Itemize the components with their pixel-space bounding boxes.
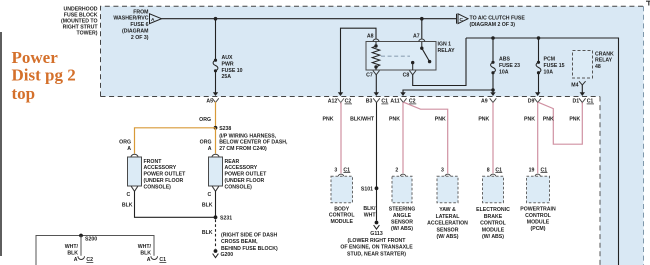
fuse block dashed border top/left: [101, 6, 644, 96]
wire ORG: S238 to rear outlet: [215, 128, 217, 154]
wire PNK: D9 to PCM: [537, 103, 539, 174]
svg-text:27 CM FROM C240): 27 CM FROM C240): [219, 146, 267, 152]
svg-text:FUSE 15: FUSE 15: [544, 63, 565, 69]
svg-text:LATERAL: LATERAL: [436, 214, 461, 220]
ground G113: [375, 221, 379, 225]
node: bus junction for AUX PWR fuse: [214, 17, 218, 21]
wire: PCM fuse to D9: [538, 73, 540, 93]
svg-text:(UNDER FLOOR: (UNDER FLOOR: [225, 178, 265, 184]
svg-text:C: C: [460, 17, 464, 23]
svg-text:SENSOR: SENSOR: [437, 227, 459, 233]
component: front accessory power outlet: [131, 154, 138, 157]
svg-text:(DIAGRAM: (DIAGRAM: [122, 29, 149, 35]
svg-text:C8: C8: [403, 73, 410, 79]
svg-text:25A: 25A: [222, 74, 232, 80]
svg-text:CONSOLE): CONSOLE): [144, 184, 172, 190]
svg-text:A5: A5: [206, 99, 213, 105]
fuse block dashed border inner-bottom-right vertical: [599, 97, 601, 265]
relay internal dashed link: [381, 55, 410, 57]
svg-text:CONTROL: CONTROL: [525, 213, 551, 219]
label: ABS FUSE 23 10A: [499, 56, 520, 75]
relay pin A8 arc: [373, 39, 379, 42]
svg-text:A: A: [147, 257, 151, 263]
svg-text:10A: 10A: [544, 69, 554, 75]
wire: S200 drop to C2: [80, 236, 82, 256]
svg-text:TO A/C CLUTCH FUSE: TO A/C CLUTCH FUSE: [470, 16, 526, 22]
svg-text:(W/ ABS): (W/ ABS): [482, 234, 504, 240]
relay pin A7 arc: [419, 39, 425, 42]
svg-text:A9: A9: [481, 99, 488, 105]
svg-text:REAR: REAR: [225, 159, 240, 165]
page edge artifact top-right corner: [646, 1, 650, 6]
fuse F-PCM symbol: [536, 62, 541, 72]
svg-text:PNK: PNK: [435, 117, 446, 123]
arrowhead into D9: [535, 92, 540, 96]
svg-text:ACCESSORY: ACCESSORY: [225, 165, 258, 171]
connector D9 chevron: [534, 98, 541, 102]
svg-text:A11: A11: [390, 99, 399, 105]
arrowhead into A11: [400, 92, 405, 96]
svg-text:D1: D1: [573, 99, 580, 105]
wire: drop to relay A7: [421, 19, 423, 39]
op: IGN 1 relay box U-IGN1: [366, 42, 436, 71]
title: Power Dist pg 2 top: [12, 48, 76, 103]
svg-text:G113: G113: [370, 231, 383, 237]
label: FROM WASHER/RVC FUSE 6: [113, 9, 148, 41]
connector A11 C2 chevron: [400, 98, 407, 102]
arrowhead into A5: [213, 92, 218, 96]
svg-text:(UNDER FLOOR: (UNDER FLOOR: [144, 178, 184, 184]
svg-text:19: 19: [529, 167, 535, 173]
relay K-CRANK dashed box: [573, 51, 593, 79]
node: bus junction for IGN1 relay A7: [420, 17, 424, 21]
splice S231: [214, 215, 218, 219]
node: junction to A11 branch: [491, 88, 495, 92]
svg-text:FRONT: FRONT: [144, 159, 163, 165]
svg-text:S231: S231: [220, 215, 232, 221]
rear outlet pin C chevron: [212, 186, 219, 191]
svg-text:(W/ ABS): (W/ ABS): [437, 234, 459, 240]
source arrow A: [150, 14, 162, 24]
svg-text:ORG: ORG: [199, 117, 211, 123]
svg-text:CONTROL: CONTROL: [480, 221, 506, 227]
svg-text:BODY: BODY: [334, 206, 350, 212]
svg-text:PWR: PWR: [222, 61, 234, 67]
wire PNK: A9 to EBCM: [492, 103, 494, 174]
svg-text:(RIGHT SIDE OF DASH: (RIGHT SIDE OF DASH: [221, 232, 277, 238]
svg-text:WHT: WHT: [364, 213, 377, 219]
fuse block dashed border bottom: [101, 96, 601, 98]
svg-text:ANGLE: ANGLE: [393, 213, 412, 219]
svg-text:BLK: BLK: [202, 230, 213, 236]
label: PCM FUSE 15 10A: [544, 56, 565, 75]
svg-text:A: A: [74, 257, 78, 263]
svg-text:(W/ ABS): (W/ ABS): [391, 226, 413, 232]
svg-text:POWERTRAIN: POWERTRAIN: [520, 206, 556, 212]
svg-text:(I/P WIRING HARNESS,: (I/P WIRING HARNESS,: [219, 133, 277, 139]
svg-text:2 OF 3): 2 OF 3): [131, 35, 149, 41]
svg-text:B3: B3: [366, 99, 373, 105]
svg-text:48: 48: [595, 64, 601, 70]
wire: main bus from arrow A: [162, 18, 457, 20]
svg-text:CROSS BEAM,: CROSS BEAM,: [221, 239, 258, 245]
svg-text:A: A: [127, 146, 131, 152]
wire PNK: A12 to BCM: [340, 103, 342, 174]
wire: A12 riser to relay A8: [341, 28, 377, 93]
svg-text:BLK/: BLK/: [363, 206, 376, 212]
svg-text:RELAY: RELAY: [595, 58, 613, 64]
wire: secondary bus: [466, 38, 619, 265]
svg-text:POWER OUTLET: POWER OUTLET: [225, 172, 268, 178]
connector A5 chevron: [212, 98, 219, 104]
crank relay pin M4 chevron: [579, 81, 586, 85]
connector C2 cup: [78, 256, 85, 259]
svg-text:ABS: ABS: [499, 56, 510, 62]
connector B3 C1 chevron: [373, 98, 380, 104]
wire PNK: A11 to steering angle sensor: [402, 103, 404, 174]
wire BLK: front outlet to S231: [135, 191, 216, 217]
svg-text:BELOW CENTER OF DASH,: BELOW CENTER OF DASH,: [219, 140, 288, 146]
svg-text:OF ENGINE, ON TRANSAXLE: OF ENGINE, ON TRANSAXLE: [340, 245, 413, 251]
svg-text:(LOWER RIGHT FRONT: (LOWER RIGHT FRONT: [348, 238, 407, 244]
wire ORG: S238 to front outlet: [135, 128, 216, 154]
svg-text:ORG: ORG: [119, 140, 131, 146]
svg-text:Power: Power: [12, 48, 59, 67]
splice S101: [375, 186, 379, 190]
svg-text:(DIAGRAM 2 OF 3): (DIAGRAM 2 OF 3): [470, 22, 516, 28]
wire PNK: A11 branch to yaw sensor: [404, 102, 448, 173]
wire BLK dashed: S231 to G200: [215, 220, 217, 249]
svg-text:BLK: BLK: [202, 202, 213, 208]
svg-text:BLK: BLK: [140, 251, 151, 257]
label: TO A/C CLUTCH FUSE: [470, 16, 526, 29]
svg-text:ACCESSORY: ACCESSORY: [144, 165, 177, 171]
wire: C8 to secondary bus: [413, 38, 466, 86]
svg-text:PNK: PNK: [478, 117, 489, 123]
svg-text:2: 2: [395, 167, 398, 173]
svg-text:PNK: PNK: [323, 117, 334, 123]
svg-text:Dist pg 2: Dist pg 2: [12, 66, 76, 85]
relay pin C7 chevron: [373, 71, 380, 75]
svg-text:ELECTRONIC: ELECTRONIC: [476, 207, 510, 213]
arrowhead into A12: [338, 92, 343, 96]
svg-text:WHT/: WHT/: [138, 244, 152, 250]
svg-text:WHT/: WHT/: [65, 244, 79, 250]
svg-text:WASHER/RVC: WASHER/RVC: [113, 16, 148, 22]
label: UNDERHOOD FUSE BLOCK: [61, 7, 98, 37]
wire: branch to A11: [403, 90, 493, 93]
splice S238: [214, 126, 218, 130]
wire BLK: rear outlet to S231: [215, 191, 217, 217]
svg-text:IGN 1: IGN 1: [438, 42, 452, 48]
svg-text:BLK: BLK: [67, 251, 78, 257]
relay pin C8 chevron: [409, 71, 416, 75]
label: G200 location: [221, 232, 278, 252]
svg-text:PNK: PNK: [389, 117, 400, 123]
node: junction ABS fuse: [491, 36, 495, 40]
wire: drop to PCM fuse: [538, 38, 540, 62]
svg-text:SENSOR: SENSOR: [391, 219, 413, 225]
svg-text:top: top: [12, 84, 36, 103]
arrowhead into B3: [374, 92, 379, 96]
splice S200: [79, 234, 83, 238]
wire PNK: D9-D1 jumper: [538, 102, 582, 144]
ground G200: [214, 249, 218, 253]
svg-text:PNK: PNK: [543, 117, 554, 123]
svg-text:S238: S238: [219, 126, 231, 132]
wire: S200 net: [36, 236, 154, 265]
svg-text:PNK: PNK: [524, 117, 535, 123]
svg-text:TOWER): TOWER): [77, 31, 98, 37]
relay coil: [372, 42, 380, 71]
wire: ABS fuse to A9: [492, 73, 494, 93]
arrowhead into A9: [490, 92, 495, 96]
svg-text:A7: A7: [413, 34, 420, 40]
svg-text:AUX: AUX: [222, 55, 233, 61]
relay switch: [411, 42, 431, 70]
svg-text:FUSE 23: FUSE 23: [499, 63, 520, 69]
svg-text:ACCELERATION: ACCELERATION: [427, 221, 468, 227]
svg-text:FROM: FROM: [133, 9, 148, 15]
svg-text:MODULE: MODULE: [527, 219, 550, 225]
svg-text:A12: A12: [328, 99, 338, 105]
wire: drop to AUX PWR fuse: [215, 19, 217, 61]
label: S238 location: [219, 133, 288, 152]
front outlet pin C chevron: [131, 186, 138, 191]
node: junction PCM fuse: [537, 36, 541, 40]
svg-text:C7: C7: [366, 73, 373, 79]
svg-text:PNK: PNK: [569, 117, 580, 123]
svg-text:D9: D9: [528, 99, 535, 105]
connector D1 C1 chevron: [579, 98, 586, 104]
svg-text:MODULE: MODULE: [330, 219, 353, 225]
svg-text:A: A: [151, 17, 155, 23]
fuse F-AUX symbol: [213, 60, 218, 71]
svg-text:PCM: PCM: [544, 56, 556, 62]
svg-text:MODULE: MODULE: [482, 227, 505, 233]
wire ORG: A5 to S238: [215, 102, 217, 128]
svg-text:A8: A8: [367, 34, 374, 40]
svg-text:3: 3: [441, 167, 444, 173]
arrow: to A/C clutch fuse: [457, 14, 469, 24]
label: CRANK RELAY 48: [595, 51, 614, 69]
connector A12 C2 chevron: [337, 98, 344, 104]
svg-text:CONTROL: CONTROL: [329, 213, 355, 219]
svg-text:S200: S200: [85, 237, 97, 243]
wire BLK/WHT: B3 to S101 to G113: [376, 103, 378, 221]
page edge artifact left: [0, 32, 2, 256]
svg-text:STEERING: STEERING: [389, 206, 416, 212]
wire: M4 to D1: [581, 85, 583, 93]
svg-text:YAW &: YAW &: [439, 207, 456, 213]
svg-text:ORG: ORG: [200, 140, 212, 146]
svg-text:BLK: BLK: [122, 202, 133, 208]
wire: C7 to B3: [375, 75, 377, 93]
svg-text:FUSE 10: FUSE 10: [222, 68, 243, 74]
wire: AUX fuse to A5: [215, 71, 217, 93]
arrowhead into D1: [580, 92, 585, 96]
svg-text:STUD, NEAR STARTER): STUD, NEAR STARTER): [347, 251, 406, 257]
svg-text:BRAKE: BRAKE: [484, 214, 503, 220]
svg-text:BLK/WHT: BLK/WHT: [350, 117, 375, 123]
svg-text:CONSOLE): CONSOLE): [225, 184, 253, 190]
svg-text:M4: M4: [571, 83, 578, 89]
svg-text:10A: 10A: [499, 69, 509, 75]
label: G113 location: [340, 238, 413, 257]
svg-text:3: 3: [334, 167, 337, 173]
svg-text:POWER OUTLET: POWER OUTLET: [144, 172, 187, 178]
connector A9 chevron: [490, 98, 497, 104]
fuse block dashed border right: [643, 6, 645, 265]
svg-text:CRANK: CRANK: [595, 51, 614, 57]
label: AUX PWR FUSE 10 25A: [222, 55, 243, 80]
fuse F-ABS symbol: [491, 62, 496, 72]
label WHT/BLK A left: [65, 244, 79, 263]
component: rear accessory power outlet: [212, 154, 219, 157]
svg-text:8: 8: [487, 167, 490, 173]
connector C1 cup: [151, 256, 158, 259]
svg-text:RELAY: RELAY: [438, 48, 456, 54]
label: IGN 1 RELAY: [438, 42, 456, 54]
svg-text:A: A: [208, 146, 212, 152]
svg-text:C: C: [126, 192, 130, 198]
svg-text:G200: G200: [221, 252, 234, 258]
svg-text:S101: S101: [361, 186, 373, 192]
svg-text:FUSE 6: FUSE 6: [130, 22, 148, 28]
svg-text:C: C: [207, 192, 211, 198]
svg-text:(PCM): (PCM): [531, 226, 546, 232]
wire: drop to ABS fuse: [492, 38, 494, 62]
label WHT/BLK A right: [138, 244, 152, 263]
